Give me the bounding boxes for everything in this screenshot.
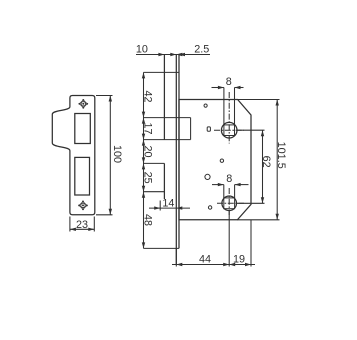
svg-text:100: 100	[111, 145, 123, 163]
svg-text:42: 42	[142, 90, 154, 102]
svg-text:62: 62	[260, 156, 272, 168]
svg-text:48: 48	[142, 214, 154, 226]
svg-text:8: 8	[226, 76, 232, 88]
svg-text:2.5: 2.5	[194, 44, 209, 56]
svg-text:17: 17	[142, 122, 154, 134]
svg-text:10: 10	[136, 44, 148, 56]
svg-text:44: 44	[199, 253, 211, 265]
svg-text:25: 25	[142, 172, 154, 184]
svg-text:23: 23	[76, 219, 88, 231]
svg-text:101.5: 101.5	[275, 142, 287, 169]
svg-text:8: 8	[226, 173, 232, 185]
svg-text:20: 20	[142, 145, 154, 157]
svg-text:14: 14	[162, 197, 174, 209]
svg-text:19: 19	[233, 253, 245, 265]
